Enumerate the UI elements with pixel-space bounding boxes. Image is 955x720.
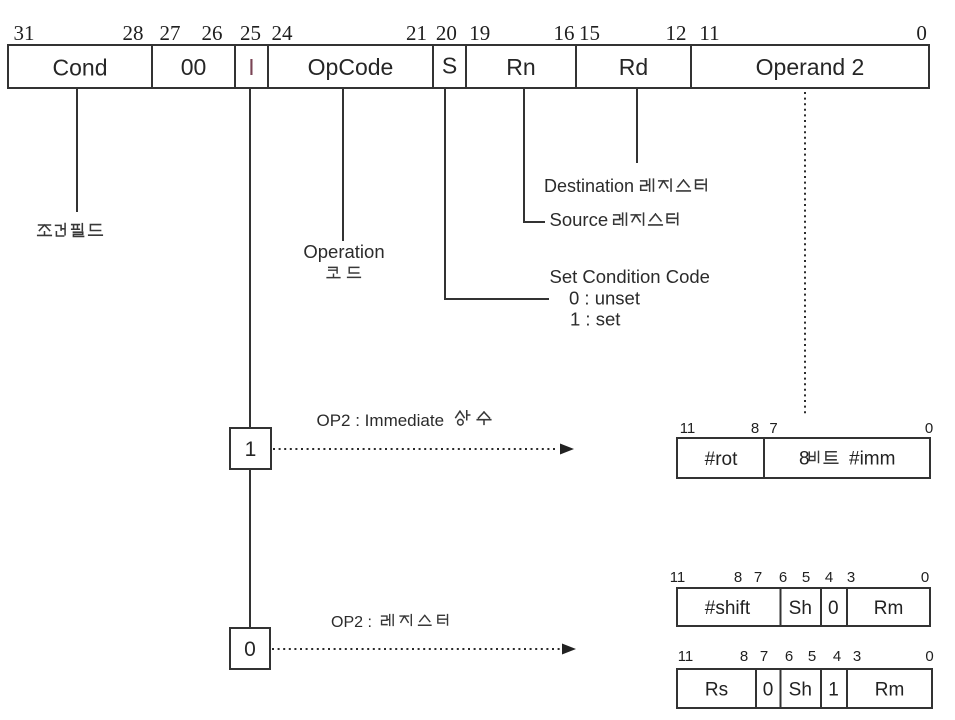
svg-text:Rn: Rn [506, 54, 535, 80]
label Set Condition Code [550, 266, 710, 287]
cell Rs [705, 680, 728, 701]
label Destination 레지스터 [544, 176, 706, 196]
cell #rot [705, 449, 738, 470]
svg-text:OP2 : Immediate: OP2 : Immediate [317, 411, 445, 430]
dotted arrow: immediate form [273, 444, 574, 455]
cell Rm (table 2) [875, 680, 905, 701]
svg-text:4: 4 [825, 569, 833, 586]
register table 2 bit label 11 [678, 648, 694, 665]
cell 0 (table 2) [763, 680, 774, 701]
svg-text:8: 8 [734, 569, 742, 586]
svg-text:0: 0 [916, 21, 927, 45]
field box Operand 2 (bits 11-0) [691, 45, 929, 88]
cell Sh (table 1) [789, 598, 812, 619]
svg-text:19: 19 [469, 21, 490, 45]
bit label 25 [240, 21, 261, 45]
field box OpCode (bits 24-21) [268, 45, 433, 88]
svg-text:7: 7 [754, 569, 762, 586]
svg-text:OpCode: OpCode [308, 54, 394, 80]
svg-text:26: 26 [202, 21, 223, 45]
svg-text:Source: Source [550, 209, 609, 230]
svg-text:1: 1 [828, 680, 839, 701]
immediate table bit label 11 [680, 420, 696, 437]
bit label 0 [916, 21, 927, 45]
svg-text:0: 0 [921, 569, 929, 586]
register table 1 bit label 8 [734, 569, 742, 586]
label 1 : set [570, 309, 620, 330]
register table 2 bit label 4 [833, 648, 841, 665]
svg-text:24: 24 [272, 21, 294, 45]
svg-text:20: 20 [436, 21, 457, 45]
svg-text:7: 7 [760, 648, 768, 665]
bit label 11 [699, 21, 719, 45]
label Source 레지스터 [550, 209, 678, 230]
svg-text:0 : unset: 0 : unset [569, 288, 640, 309]
label 조건필드 (condition field) [38, 224, 103, 237]
wire: S leader with elbow [445, 88, 549, 299]
svg-text:Rd: Rd [619, 54, 648, 80]
svg-text:1 : set: 1 : set [570, 309, 620, 330]
cell Sh (table 2) [789, 680, 812, 701]
bit label 27 [160, 21, 181, 45]
svg-text:0: 0 [925, 648, 933, 665]
svg-text:6: 6 [779, 569, 787, 586]
svg-text:Rm: Rm [874, 598, 904, 619]
bit label 19 [469, 21, 490, 45]
field box Cond (bits 31-28) [8, 45, 152, 88]
svg-text:16: 16 [554, 21, 575, 45]
svg-text:Operation: Operation [303, 241, 384, 262]
field box I (bit 25) [235, 45, 268, 88]
svg-text:OP2 :: OP2 : [331, 614, 372, 631]
svg-text:12: 12 [666, 21, 687, 45]
bit label 16 [554, 21, 575, 45]
register table 1 bit label 3 [847, 569, 855, 586]
wire: OpCode leader [342, 88, 344, 241]
svg-text:#rot: #rot [705, 449, 738, 470]
svg-text:4: 4 [833, 648, 841, 665]
svg-text:Set Condition Code: Set Condition Code [550, 266, 710, 287]
svg-text:6: 6 [785, 648, 793, 665]
register table 2 bit label 3 [853, 648, 861, 665]
svg-text:5: 5 [808, 648, 816, 665]
bit label 21 [406, 21, 427, 45]
svg-text:#shift: #shift [705, 598, 751, 619]
svg-text:0: 0 [925, 420, 933, 437]
svg-text:21: 21 [406, 21, 427, 45]
svg-text:Operand 2: Operand 2 [756, 54, 865, 80]
register table 1 bit label 4 [825, 569, 833, 586]
svg-text:11: 11 [670, 569, 686, 586]
label OP2 : Immediate 상수 [317, 411, 491, 430]
svg-text:8: 8 [799, 449, 810, 470]
svg-text:11: 11 [680, 420, 696, 437]
svg-text:Sh: Sh [789, 598, 812, 619]
node box I=1 [230, 428, 271, 469]
svg-text:27: 27 [160, 21, 181, 45]
bit label 26 [202, 21, 223, 45]
svg-text:Cond: Cond [53, 55, 108, 81]
svg-text:0: 0 [763, 680, 774, 701]
svg-text:Sh: Sh [789, 680, 812, 701]
svg-text:15: 15 [579, 21, 600, 45]
svg-text:3: 3 [853, 648, 861, 665]
register table 1 bit label 5 [802, 569, 810, 586]
cell 8비트 #imm [799, 449, 895, 470]
wire: Operand 2 dotted leader [804, 92, 806, 416]
svg-text:1: 1 [245, 438, 257, 461]
field box Rd (bits 15-12) [576, 45, 691, 88]
svg-text:0: 0 [244, 638, 256, 661]
register table 1 bit label 11 [670, 569, 686, 586]
bit label 31 [14, 21, 35, 45]
cell Rm (table 1) [874, 598, 904, 619]
wire: I leader (long vertical) [249, 88, 251, 628]
node box I=0 [230, 628, 270, 669]
immediate table bit label 0 [925, 420, 933, 437]
immediate table bit label 8 [751, 420, 759, 437]
register table 2 bit label 5 [808, 648, 816, 665]
register table 1 bit label 7 [754, 569, 762, 586]
svg-text:7: 7 [769, 420, 777, 437]
svg-text:8: 8 [740, 648, 748, 665]
svg-text:8: 8 [751, 420, 759, 437]
wire: Rn leader with elbow [524, 88, 545, 222]
svg-text:5: 5 [802, 569, 810, 586]
register table 2 bit label 0 [925, 648, 933, 665]
bit label 12 [666, 21, 687, 45]
svg-text:25: 25 [240, 21, 261, 45]
svg-text:S: S [442, 53, 457, 79]
svg-text:11: 11 [699, 21, 719, 45]
field box S (bit 20) [433, 45, 466, 88]
svg-text:I: I [248, 54, 254, 80]
wire: Rd leader [636, 88, 638, 163]
register table 2 box [677, 669, 932, 708]
wire: Cond leader [76, 88, 78, 212]
immediate table box [677, 438, 930, 478]
register table 1 bit label 0 [921, 569, 929, 586]
cell #shift [705, 598, 751, 619]
svg-text:11: 11 [678, 648, 694, 665]
register table 2 bit label 7 [760, 648, 768, 665]
svg-text:#imm: #imm [849, 449, 895, 470]
bit label 28 [123, 21, 144, 45]
bit label 20 [436, 21, 457, 45]
svg-text:28: 28 [123, 21, 144, 45]
label 0 : unset [569, 288, 640, 309]
register table 1 box [677, 588, 930, 626]
cell 1 (table 2) [828, 680, 839, 701]
register table 2 bit label 6 [785, 648, 793, 665]
field box Rn (bits 19-16) [466, 45, 576, 88]
field box 00 (bits 27-26) [152, 45, 235, 88]
svg-text:00: 00 [181, 54, 207, 80]
register table 2 bit label 8 [740, 648, 748, 665]
svg-text:31: 31 [14, 21, 35, 45]
svg-text:Rm: Rm [875, 680, 905, 701]
label OP2 : 레지스터 [331, 614, 448, 631]
immediate table bit label 7 [769, 420, 777, 437]
svg-text:0: 0 [828, 598, 839, 619]
svg-text:3: 3 [847, 569, 855, 586]
svg-text:Rs: Rs [705, 680, 728, 701]
cell 0 (table 1) [828, 598, 839, 619]
bit label 24 [272, 21, 294, 45]
register table 1 bit label 6 [779, 569, 787, 586]
bit label 15 [579, 21, 600, 45]
dotted arrow: register form [272, 644, 576, 655]
svg-text:Destination: Destination [544, 176, 634, 196]
label Operation 코드 [303, 241, 384, 278]
